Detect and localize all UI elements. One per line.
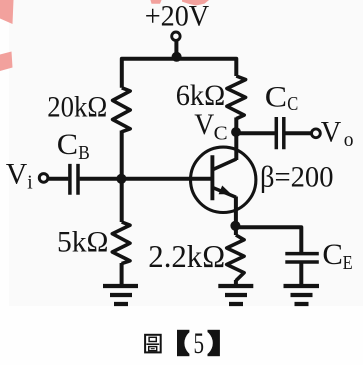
wire CB right plate to base of Q1	[80, 177, 211, 181]
red mark fragment top-left corner	[0, 0, 14, 24]
wire CE bottom plate to ground G3	[299, 263, 303, 285]
wire emitter down through node to R4 top	[234, 197, 238, 236]
transistor Q1 circle	[191, 147, 256, 212]
svg-text:2.2kΩ: 2.2kΩ	[148, 239, 225, 274]
red mark fragment top edge small	[151, 0, 162, 4]
node junction dot at supply	[172, 52, 182, 62]
wire R1 bottom to base node to R3 top	[120, 131, 124, 223]
terminal circle +20V	[172, 32, 180, 40]
capacitor CC plates	[276, 117, 284, 149]
svg-text:C: C	[214, 123, 228, 144]
node junction dot emitter	[230, 221, 240, 231]
transistor Q1 base bar	[210, 155, 214, 200]
wire CC right plate to Vo terminal	[285, 131, 311, 135]
caption white disc for digit	[184, 329, 212, 357]
wire emitter node to CE top	[236, 227, 301, 252]
svg-text:C: C	[57, 129, 78, 161]
node junction dot at base	[116, 174, 126, 184]
svg-text:V: V	[194, 109, 214, 141]
terminal circle Vi	[39, 174, 48, 183]
caption bracket left 【	[177, 330, 189, 356]
transistor Q1 emitter diagonal	[213, 188, 236, 198]
svg-text:C: C	[287, 94, 298, 115]
wire R3 bottom to ground G1	[120, 263, 124, 285]
svg-text:E: E	[343, 253, 353, 274]
svg-text:β=200: β=200	[260, 162, 334, 194]
wire top rail with corners down to R1 and R2	[122, 59, 237, 88]
svg-text:6kΩ: 6kΩ	[176, 79, 226, 112]
transistor Q1 collector diagonal	[213, 159, 236, 170]
ground G3 under CE	[284, 286, 320, 304]
terminal circle Vo	[312, 129, 321, 138]
resistor R1 20kΩ zigzag	[113, 88, 131, 132]
red mark fragment left edge	[0, 52, 13, 72]
ground G2 under R4	[218, 286, 253, 304]
capacitor CB plates	[70, 164, 78, 195]
svg-text:o: o	[344, 130, 354, 151]
transistor Q1 emitter arrow	[219, 186, 232, 195]
svg-text:B: B	[78, 143, 90, 164]
wire +20V terminal stub	[174, 41, 178, 57]
svg-text:5kΩ: 5kΩ	[57, 225, 109, 258]
svg-text:+20V: +20V	[145, 0, 210, 32]
wire Vi terminal to CB left plate	[48, 177, 69, 181]
svg-text:C: C	[322, 239, 343, 271]
svg-text:i: i	[27, 173, 33, 194]
svg-text:C: C	[265, 81, 287, 113]
svg-text:V: V	[6, 159, 28, 191]
resistor R2 6kΩ zigzag	[227, 76, 246, 119]
capacitor CE plates	[285, 254, 319, 262]
red mark fragment top edge large	[182, 0, 209, 6]
caption hanzi 圖 drawn as strokes	[145, 335, 161, 353]
resistor R4 2.2kΩ zigzag	[227, 235, 244, 281]
wire R4 bottom to ground G2	[234, 280, 238, 285]
resistor R3 5kΩ zigzag	[112, 222, 130, 264]
wire VC node to CC left plate	[238, 131, 275, 135]
svg-text:20kΩ: 20kΩ	[47, 91, 107, 124]
node junction dot VC	[231, 127, 241, 137]
svg-text:5: 5	[194, 327, 205, 360]
ground G1 under R3	[103, 286, 138, 304]
wire R2 bottom through VC node into collector	[234, 118, 238, 161]
svg-text:V: V	[321, 117, 342, 149]
caption bracket right 】	[208, 330, 220, 356]
